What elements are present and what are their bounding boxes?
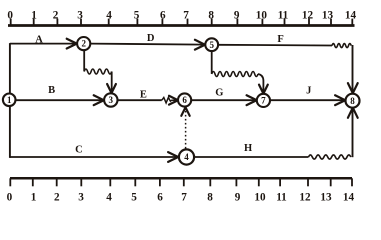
svg-text:E: E	[140, 90, 147, 101]
svg-text:13: 13	[320, 192, 332, 204]
svg-text:4: 4	[106, 10, 112, 22]
svg-text:D: D	[147, 33, 155, 44]
svg-text:7: 7	[183, 10, 189, 22]
svg-text:B: B	[48, 85, 55, 96]
svg-text:C: C	[75, 144, 83, 155]
svg-text:F: F	[277, 34, 283, 45]
svg-text:7: 7	[181, 192, 187, 204]
svg-text:4: 4	[106, 192, 112, 204]
svg-text:1: 1	[7, 95, 12, 105]
svg-text:9: 9	[234, 10, 240, 22]
svg-text:2: 2	[53, 10, 59, 22]
svg-text:14: 14	[343, 192, 355, 204]
svg-text:5: 5	[134, 10, 140, 22]
svg-text:5: 5	[131, 192, 137, 204]
svg-text:3: 3	[77, 10, 83, 22]
svg-text:14: 14	[345, 10, 357, 22]
svg-text:6: 6	[182, 95, 187, 105]
svg-text:3: 3	[78, 192, 84, 204]
svg-text:6: 6	[160, 10, 166, 22]
svg-text:6: 6	[157, 192, 163, 204]
svg-text:H: H	[244, 143, 252, 154]
svg-text:0: 0	[7, 10, 13, 22]
svg-text:13: 13	[322, 10, 334, 22]
svg-text:10: 10	[256, 10, 268, 22]
svg-text:8: 8	[350, 96, 355, 106]
svg-text:12: 12	[299, 192, 311, 204]
svg-text:1: 1	[31, 10, 37, 22]
svg-text:1: 1	[31, 192, 37, 204]
svg-text:11: 11	[276, 192, 287, 204]
svg-text:3: 3	[109, 95, 114, 105]
svg-text:2: 2	[54, 192, 60, 204]
svg-text:J: J	[306, 86, 311, 97]
svg-text:7: 7	[261, 96, 266, 106]
svg-text:5: 5	[209, 40, 214, 50]
svg-text:2: 2	[81, 39, 86, 49]
svg-text:0: 0	[7, 192, 13, 204]
svg-text:G: G	[215, 88, 223, 99]
svg-text:8: 8	[207, 192, 213, 204]
svg-text:9: 9	[235, 192, 241, 204]
svg-text:10: 10	[254, 192, 266, 204]
svg-text:A: A	[35, 34, 43, 45]
svg-text:8: 8	[208, 10, 214, 22]
svg-text:11: 11	[278, 10, 289, 22]
svg-text:12: 12	[302, 10, 314, 22]
svg-text:4: 4	[184, 152, 189, 162]
